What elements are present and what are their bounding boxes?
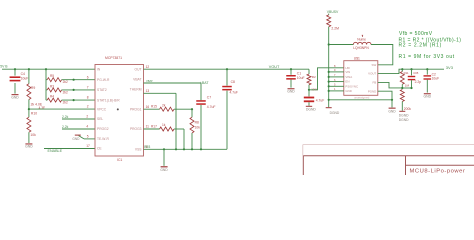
svg-text:GND: GND [25, 145, 33, 149]
net label +BAT [200, 81, 210, 85]
svg-text:STAT1(LB)-B/R: STAT1(LB)-B/R [97, 98, 120, 102]
inductor L1 [353, 35, 371, 50]
wire TE row [84, 135, 95, 139]
resistor R5 [46, 74, 68, 84]
svg-text:2: 2 [87, 105, 89, 109]
node R2 C6 junction [308, 89, 310, 91]
svg-text:FB: FB [372, 81, 376, 85]
wire SEL row [62, 115, 95, 119]
svg-text:2.2k: 2.2k [62, 125, 69, 129]
node VSS rail junctions [163, 148, 202, 150]
svg-text:Nume: Nume [357, 37, 366, 41]
svg-text:PGND: PGND [368, 89, 376, 93]
ground below VSS rail [160, 166, 168, 172]
svg-text:VSS: VSS [135, 148, 142, 152]
svg-text:VBAT: VBAT [146, 79, 153, 83]
svg-text:VOUT: VOUT [368, 72, 376, 76]
wire PGND [378, 91, 393, 107]
resistor R7 2.2M [327, 14, 339, 31]
wire R3 to IC1 [62, 86, 95, 90]
svg-text:2.2M: 2.2M [331, 27, 339, 31]
svg-text:VBAT: VBAT [133, 78, 141, 82]
wire rail A mid [28, 100, 30, 118]
wire PROG2 row [62, 125, 95, 129]
frame outer faint [303, 145, 474, 156]
resistor R10 [27, 112, 37, 138]
svg-text:10k: 10k [195, 125, 201, 129]
wire VBAT [144, 79, 202, 83]
node junction at (73.6,89.9) [73, 89, 75, 91]
svg-text:1k: 1k [162, 123, 166, 127]
wire VSS stub down [163, 149, 165, 166]
net label 3V3 [446, 65, 454, 70]
svg-text:C7: C7 [207, 95, 211, 99]
svg-text:R15: R15 [151, 105, 157, 109]
svg-text:THERM: THERM [130, 88, 142, 92]
ground at TE pin [72, 135, 84, 142]
svg-text:GND: GND [388, 109, 396, 113]
svg-text:ENABLE: ENABLE [48, 149, 63, 153]
svg-text:VINA: VINA [345, 75, 352, 79]
wire 5V input rail [2, 68, 95, 70]
label 4.3E [39, 106, 46, 110]
svg-text:1M: 1M [405, 83, 410, 87]
svg-text:OUT: OUT [135, 67, 142, 71]
svg-text:C4: C4 [21, 72, 25, 76]
wire VPCC row [28, 105, 95, 111]
op-amp IC1 MCP73871 charger [95, 56, 144, 162]
svg-text:GND: GND [287, 89, 295, 93]
svg-text:8: 8 [87, 96, 89, 100]
svg-text:R10: R10 [31, 112, 37, 116]
svg-text:PROG3: PROG3 [130, 127, 142, 131]
svg-text:unassigned: unassigned [354, 96, 370, 100]
resistor R16 200k [400, 90, 411, 112]
svg-text:6: 6 [87, 75, 89, 79]
svg-text:C05: C05 [413, 71, 419, 75]
svg-text:SEL: SEL [97, 117, 103, 121]
svg-text:2k2: 2k2 [63, 90, 68, 94]
wire rail to GND net [329, 99, 392, 101]
wire rail to EN [329, 81, 344, 83]
svg-text:R4: R4 [50, 95, 54, 99]
svg-text:SW: SW [372, 63, 377, 67]
svg-text:11: 11 [146, 125, 150, 129]
resistor R4 [46, 95, 68, 105]
wire rail to VINA [329, 76, 344, 78]
svg-text:3V3: 3V3 [446, 65, 454, 70]
node 3V3 junctions [401, 68, 428, 70]
ground DGND below C6 [306, 106, 317, 112]
capacitor C05 [408, 69, 421, 88]
note Vfb [399, 31, 433, 37]
capacitor C7 [196, 83, 215, 149]
svg-text:C8: C8 [231, 80, 235, 84]
node VOUT junctions [226, 68, 292, 70]
capacitor C8 [222, 69, 238, 149]
svg-text:7: 7 [87, 86, 89, 90]
svg-text:4.7uF: 4.7uF [316, 99, 324, 103]
svg-text:CE: CE [97, 147, 102, 151]
wire rail to boost GND pin [329, 90, 344, 92]
svg-text:R2 = 2.2M (R1): R2 = 2.2M (R1) [399, 43, 442, 49]
wire rail to VIN [329, 71, 344, 73]
wire R5 to IC1 [62, 75, 95, 79]
svg-text:10k: 10k [30, 133, 36, 137]
svg-text:R2: R2 [312, 75, 316, 79]
wire R4 to IC1 [62, 96, 95, 100]
node top-rail junctions [14, 68, 47, 70]
svg-text:2k2: 2k2 [63, 101, 68, 105]
svg-text:PROG2: PROG2 [97, 127, 109, 131]
svg-text:2k2: 2k2 [63, 80, 68, 84]
net label VOUT [269, 65, 280, 69]
svg-text:12: 12 [146, 65, 150, 69]
svg-text:EN: EN [345, 80, 349, 84]
svg-text:STAT2: STAT2 [97, 88, 107, 92]
svg-text:PG-W-R: PG-W-R [97, 78, 110, 82]
svg-text:2: 2 [86, 115, 88, 119]
note R1 for 3V3 [399, 54, 455, 60]
svg-text:17: 17 [86, 144, 90, 148]
ground DGND below rail [326, 107, 340, 115]
ground below C1 [287, 88, 295, 93]
node junction at (73.6,79.7) [73, 79, 75, 81]
resistor R3 [46, 84, 68, 94]
svg-text:4: 4 [86, 125, 88, 129]
net label VBUSV [327, 10, 339, 14]
svg-text:VBUSV: VBUSV [327, 10, 339, 14]
wire inductor to SW [371, 45, 393, 65]
svg-text:MCU8-LiPo-power: MCU8-LiPo-power [410, 169, 466, 175]
capacitor C1 [286, 69, 304, 87]
pin numbers U$1 left [334, 64, 336, 91]
wire FB [378, 82, 403, 88]
capacitor C2 [424, 69, 440, 92]
wire R2 to node [308, 85, 310, 90]
node rail junctions [328, 43, 330, 101]
resistor R11 [400, 69, 409, 88]
svg-text:R8: R8 [195, 120, 199, 124]
svg-text:5: 5 [87, 135, 89, 139]
svg-text:13: 13 [146, 89, 150, 93]
wire ENABLE to CE [44, 144, 95, 153]
svg-text:16: 16 [146, 105, 150, 109]
wire boost left rail [328, 27, 330, 108]
note R2 value [399, 43, 442, 49]
svg-text:R5: R5 [50, 74, 54, 78]
resistor R17 on PROG3 [144, 123, 185, 149]
svg-text:VOUT: VOUT [269, 65, 280, 69]
svg-text:DGND: DGND [399, 118, 409, 122]
wire node to boost LBI [309, 68, 344, 90]
svg-text:R9: R9 [31, 86, 35, 90]
node junction at (73.6,100.1) [73, 99, 75, 101]
node FB junctions [401, 83, 412, 89]
capacitor C6 [304, 90, 324, 106]
svg-text:TE-W-R: TE-W-R [97, 137, 109, 141]
wire VSS ground rail [144, 148, 228, 150]
svg-text:GND: GND [160, 168, 168, 172]
svg-text:5V B: 5V B [0, 65, 8, 69]
svg-text:U$1: U$1 [354, 57, 360, 61]
svg-text:PS/SYNC: PS/SYNC [345, 84, 358, 88]
title text MCU8-LiPo-power [410, 169, 466, 175]
svg-text:R1 = 9M for 3V3 out: R1 = 9M for 3V3 out [399, 54, 455, 60]
title block frame [303, 156, 474, 175]
wire rail to PS/SYNC [329, 85, 344, 87]
svg-text:GND: GND [72, 137, 80, 141]
svg-text:LQH3NPN: LQH3NPN [353, 46, 369, 50]
svg-text:4.7uF: 4.7uF [207, 105, 216, 109]
svg-text:B93: B93 [144, 145, 150, 149]
ground below R10 [25, 143, 33, 148]
svg-text:GND: GND [345, 89, 351, 93]
resistor R8 [190, 109, 200, 149]
wire rail B [45, 69, 47, 100]
net label B93 [144, 145, 150, 149]
svg-text:MCP73871: MCP73871 [105, 56, 122, 60]
resistor R9 [27, 84, 43, 107]
wire THERM [144, 93, 177, 149]
wire rail A lower [28, 132, 30, 143]
op-amp U$1 boost converter [344, 57, 378, 100]
svg-text:IC1: IC1 [117, 158, 122, 162]
svg-text:DGND: DGND [330, 111, 340, 115]
svg-text:10uF: 10uF [297, 76, 305, 80]
ground below C2 [424, 93, 432, 98]
svg-text:R3: R3 [50, 84, 54, 88]
ground below C4 [11, 94, 19, 99]
svg-text:10uF: 10uF [21, 77, 29, 81]
svg-text:200k: 200k [404, 107, 412, 111]
pin numbers IC1 right [146, 65, 150, 149]
svg-text:GND: GND [424, 94, 432, 98]
svg-text:10uF: 10uF [432, 77, 440, 81]
ground below PGND [388, 108, 396, 114]
svg-text:R17: R17 [151, 124, 157, 128]
svg-text:GND: GND [11, 95, 19, 99]
resistor R15 on PROG1 [144, 103, 194, 111]
svg-text:VIN: VIN [345, 70, 350, 74]
svg-text:PROG1: PROG1 [130, 107, 142, 111]
net label 5V B [0, 65, 8, 69]
svg-text:4.3E: 4.3E [39, 106, 46, 110]
wire VOUT 3V3 rail [378, 69, 444, 73]
svg-text:2.2k: 2.2k [62, 115, 69, 119]
svg-text:2.2p: 2.2p [415, 80, 422, 84]
svg-text:R11: R11 [404, 71, 409, 75]
svg-text:2k: 2k [162, 103, 166, 107]
svg-text:4.7uF: 4.7uF [230, 91, 238, 95]
ground DGND below R16 [399, 111, 409, 122]
svg-text:DGND: DGND [306, 108, 316, 112]
wire rail A upper [28, 69, 30, 84]
capacitor C4 [10, 69, 29, 93]
resistor R2 from VOUT [307, 69, 318, 91]
wire VOUT rail [144, 68, 310, 70]
svg-text:VPCC: VPCC [97, 107, 107, 111]
wire inductor feed [329, 44, 354, 46]
note R1 formula [399, 37, 462, 43]
svg-text:Vfb = 500mV: Vfb = 500mV [399, 31, 433, 37]
